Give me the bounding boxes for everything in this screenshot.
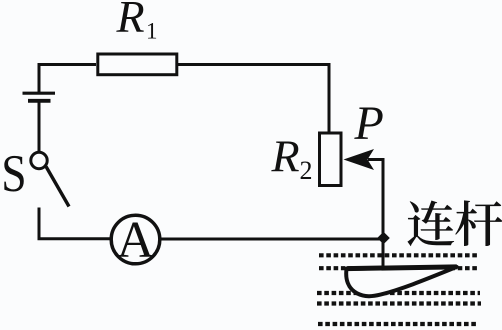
svg-text:R: R <box>271 131 300 182</box>
svg-text:S: S <box>1 144 26 203</box>
svg-text:R: R <box>116 0 145 42</box>
svg-text:P: P <box>354 97 384 150</box>
svg-text:2: 2 <box>300 156 313 185</box>
svg-text:A: A <box>117 212 155 269</box>
svg-text:1: 1 <box>146 19 158 44</box>
